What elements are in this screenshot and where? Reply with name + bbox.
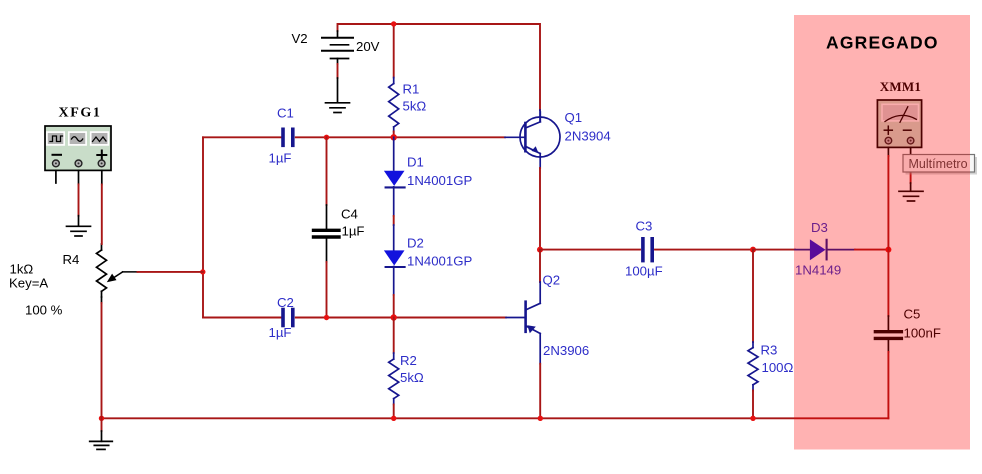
- resistor R2: [393, 318, 395, 354]
- wire between D1 and D2: [393, 216, 395, 225]
- wire node to D3: [753, 249, 795, 251]
- ground under V2: [326, 103, 350, 113]
- ground under XFG1: [67, 226, 91, 236]
- svg-text:R2: R2: [400, 353, 417, 368]
- tooltip Multimetro: [903, 155, 977, 175]
- XFG1 middle terminal wire to ground: [78, 170, 80, 184]
- wire C3 to node: [655, 249, 753, 251]
- R4 wiper arrow: [112, 272, 138, 279]
- XFG1 left terminal stub: [55, 170, 57, 183]
- ground under XMM1: [899, 191, 923, 201]
- node R1/D1/base: [391, 134, 397, 140]
- wire battery to ground: [337, 64, 339, 78]
- svg-text:XFG1: XFG1: [59, 106, 102, 121]
- svg-text:1µF: 1µF: [269, 325, 292, 340]
- svg-text:100 %: 100 %: [25, 303, 63, 318]
- svg-text:C4: C4: [341, 207, 358, 222]
- svg-text:100Ω: 100Ω: [762, 360, 794, 375]
- svg-text:5kΩ: 5kΩ: [403, 99, 427, 114]
- wire output row to C3: [540, 249, 640, 251]
- svg-text:Key=A: Key=A: [9, 276, 48, 291]
- XMM1 minus wire to ground: [910, 147, 912, 160]
- svg-text:D2: D2: [407, 236, 424, 251]
- node rail R2: [391, 416, 396, 421]
- wire top rail V2 to Q1 collector drop: [338, 24, 541, 110]
- wire vertical to R1 top: [393, 24, 395, 78]
- svg-text:100µF: 100µF: [625, 264, 663, 279]
- diode D1: [393, 137, 395, 170]
- bottom rail: [102, 417, 889, 419]
- capacitor C5: [887, 250, 889, 316]
- svg-text:1kΩ: 1kΩ: [10, 262, 34, 277]
- wire Q1 emitter to output node: [539, 168, 541, 250]
- capacitor C4: [326, 137, 328, 205]
- wire D2 to Q2 base row: [393, 295, 395, 318]
- svg-text:D1: D1: [407, 154, 424, 169]
- node C2 right: [324, 315, 329, 320]
- overlay AGREGADO region: [794, 15, 970, 450]
- svg-text:C2: C2: [277, 295, 294, 310]
- wire C2 row: [203, 317, 281, 319]
- diode D3: [795, 249, 810, 251]
- node wiper junction: [200, 269, 205, 274]
- svg-text:C1: C1: [277, 106, 294, 121]
- svg-text:1µF: 1µF: [342, 224, 365, 239]
- svg-text:R1: R1: [403, 82, 420, 97]
- left vertical wire C1-C2: [202, 137, 204, 317]
- svg-text:R4: R4: [63, 252, 80, 267]
- wire C1 row: [203, 136, 281, 138]
- wire Q1 base stub: [505, 136, 525, 138]
- node D3/XMM/C5: [885, 247, 891, 253]
- svg-text:2N3906: 2N3906: [543, 343, 589, 358]
- wire R1 bottom to base node: [393, 132, 395, 138]
- svg-text:1N4001GP: 1N4001GP: [407, 254, 472, 269]
- svg-text:AGREGADO: AGREGADO: [826, 33, 939, 53]
- svg-text:5kΩ: 5kΩ: [400, 370, 424, 385]
- XFG1 plus terminal wire to R4: [101, 170, 103, 184]
- wire D3 to node: [855, 249, 888, 251]
- svg-text:R3: R3: [761, 342, 778, 357]
- capacitor C2: [283, 310, 293, 326]
- svg-text:Q2: Q2: [543, 273, 561, 288]
- node rail Q2: [538, 416, 543, 421]
- node C3 right: [750, 247, 756, 253]
- svg-text:1µF: 1µF: [269, 151, 292, 166]
- ground bottom left: [101, 418, 103, 431]
- node rail R3: [750, 416, 755, 421]
- node top junction: [391, 21, 396, 26]
- node D2/R2: [391, 314, 397, 320]
- svg-text:V2: V2: [292, 31, 308, 46]
- svg-text:20V: 20V: [356, 39, 380, 54]
- battery V2: [322, 31, 353, 64]
- XMM1 plus wire down: [887, 147, 889, 156]
- resistor R1: [389, 78, 399, 132]
- transistor Q2: [539, 250, 541, 282]
- node C1 right: [324, 135, 329, 140]
- potentiometer R4: [97, 244, 107, 303]
- svg-text:2N3904: 2N3904: [565, 129, 611, 144]
- svg-text:Q1: Q1: [565, 110, 583, 125]
- node rail R4: [99, 416, 104, 421]
- node output: [537, 247, 543, 253]
- capacitor C1: [283, 129, 293, 145]
- svg-text:C3: C3: [636, 219, 653, 234]
- capacitor C3: [643, 239, 652, 261]
- transistor Q1: [539, 110, 541, 121]
- resistor R3: [752, 250, 754, 342]
- diode D2: [393, 225, 395, 250]
- svg-text:1N4001GP: 1N4001GP: [407, 173, 472, 188]
- wire Q2 emitter to rail: [539, 364, 541, 419]
